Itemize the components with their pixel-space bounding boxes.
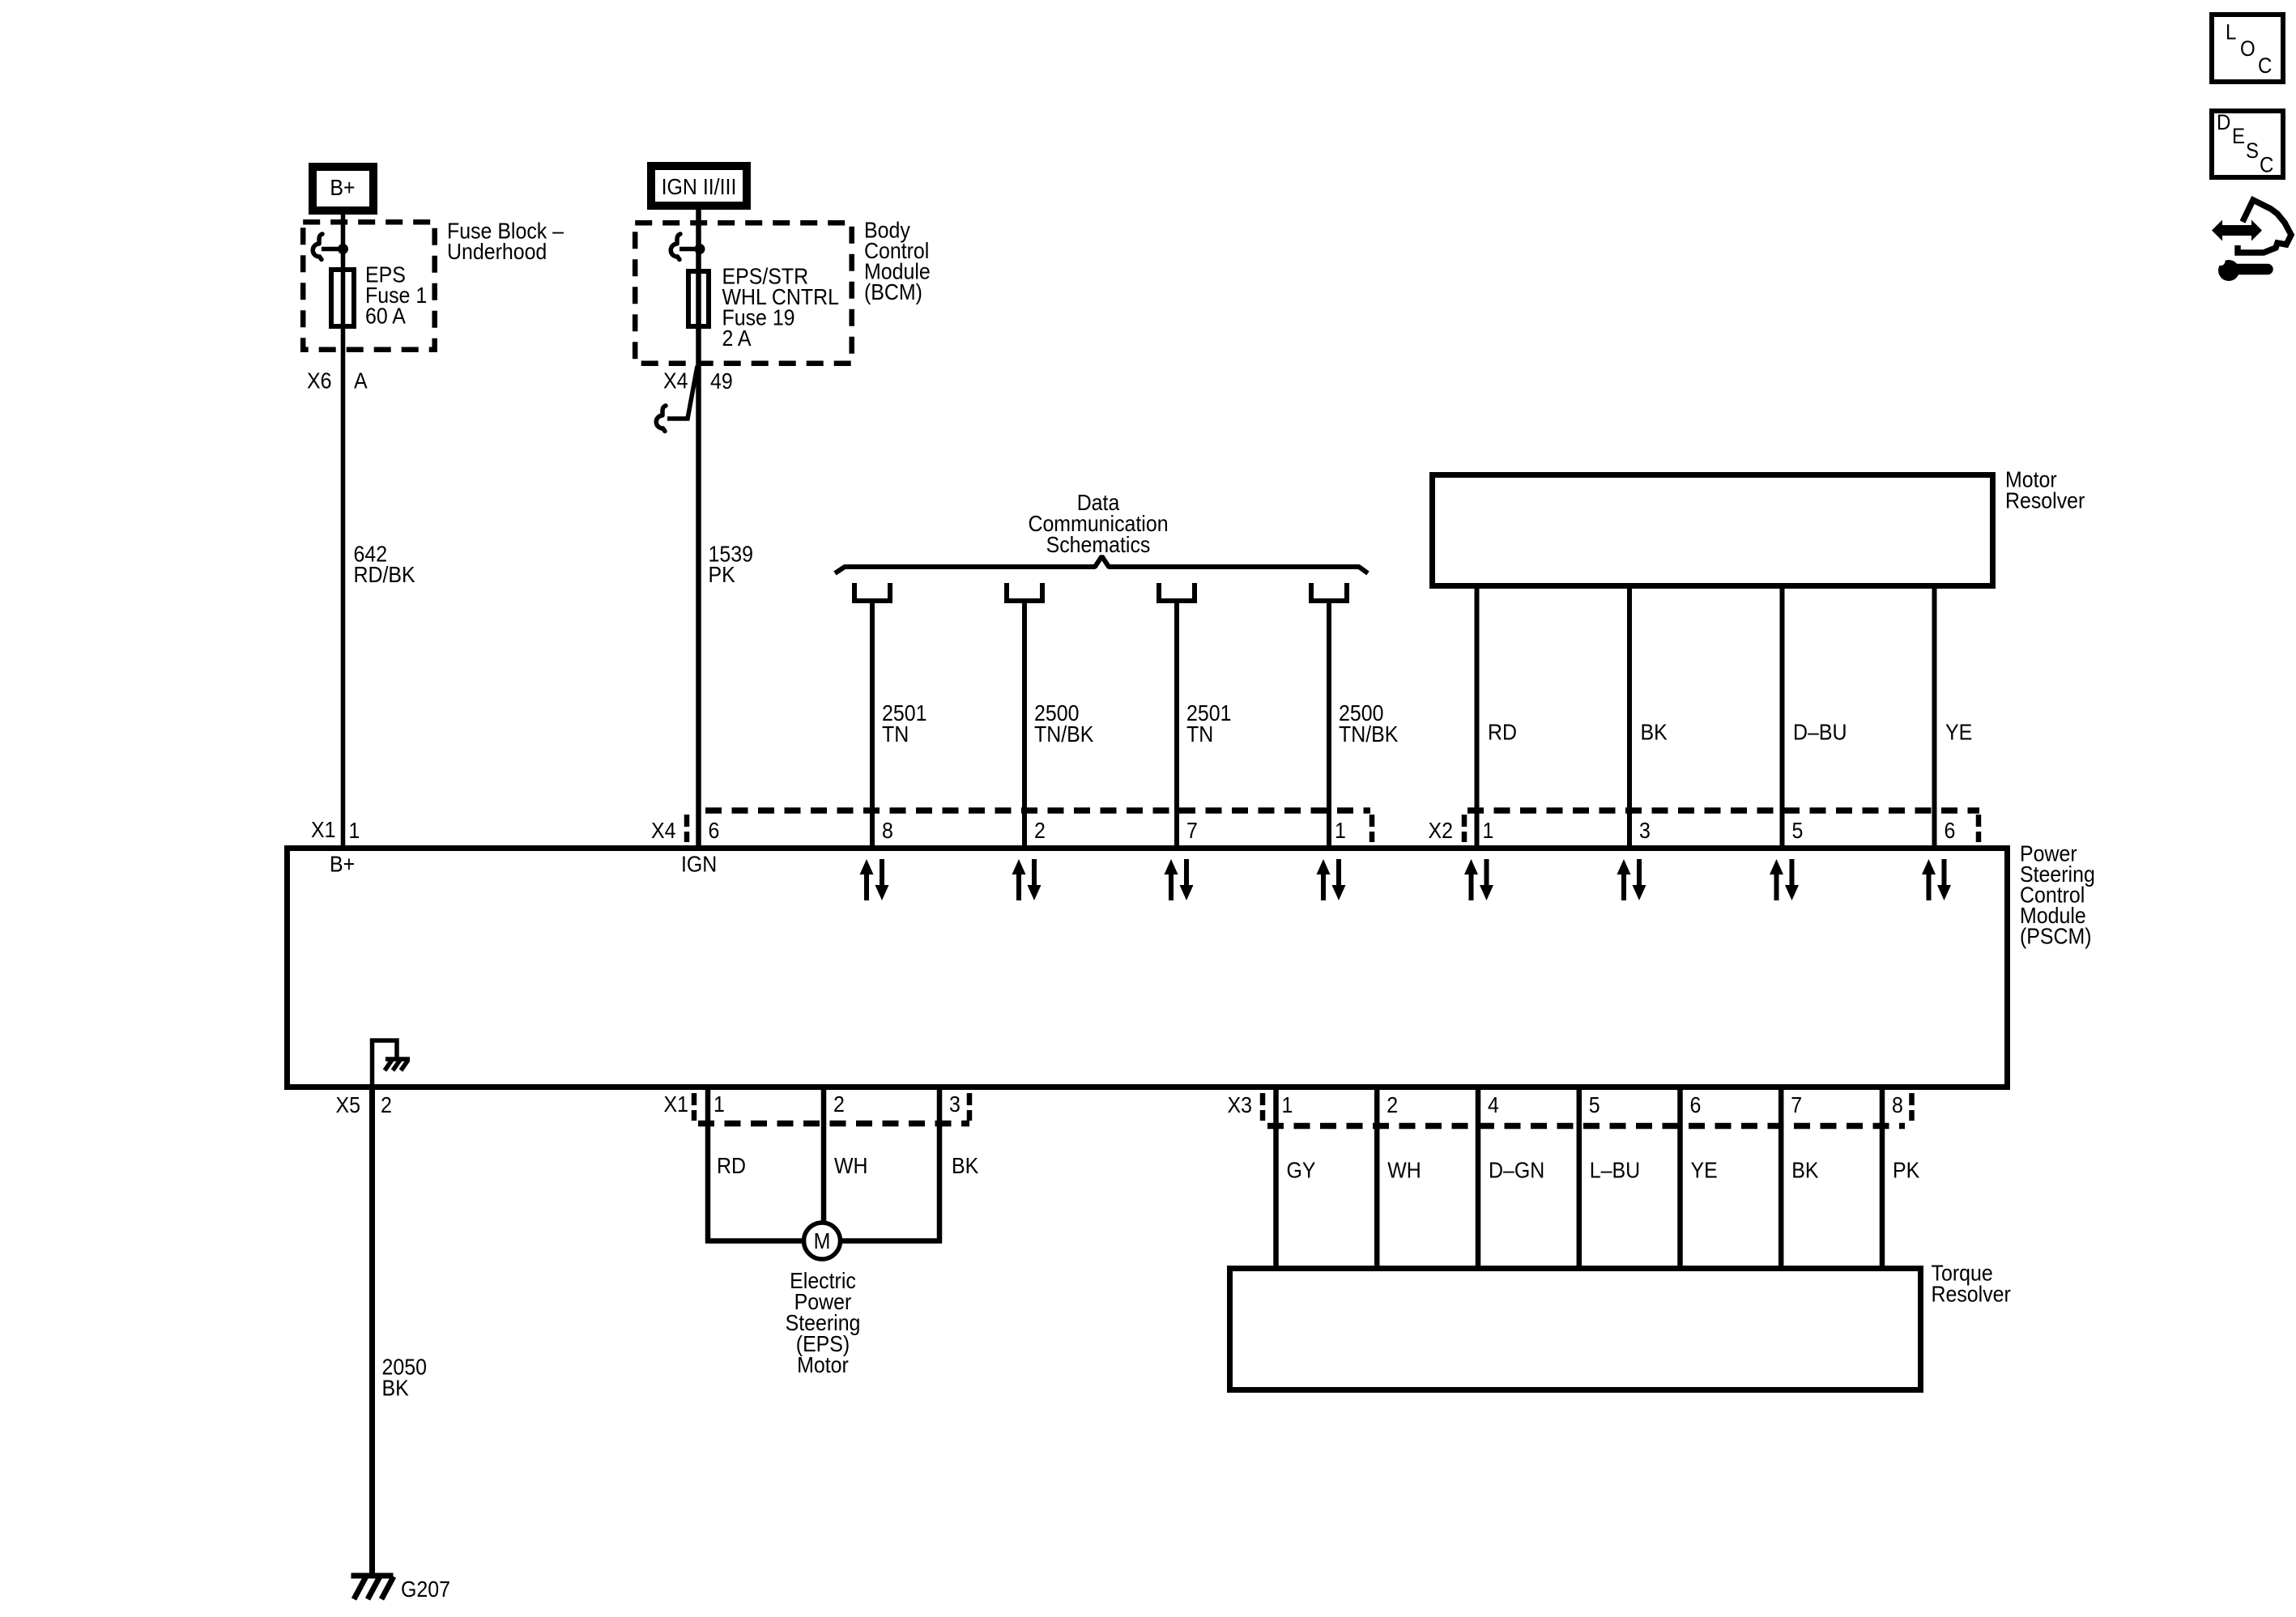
svg-text:M: M — [814, 1228, 831, 1254]
svg-text:60 A: 60 A — [365, 303, 406, 329]
X2 bracket left dashes — [1462, 815, 1467, 827]
svg-text:6: 6 — [1945, 818, 1956, 844]
svg-text:1: 1 — [714, 1091, 725, 1117]
svg-text:2 A: 2 A — [722, 326, 752, 351]
X1 bracket left dashes — [692, 1093, 697, 1105]
svg-text:A: A — [354, 368, 368, 394]
svg-text:(PSCM): (PSCM) — [2020, 923, 2092, 949]
svg-text:TN: TN — [882, 721, 909, 747]
svg-text:X2: X2 — [1429, 818, 1453, 844]
wire torque resolver WH — [1374, 1087, 1380, 1268]
svg-text:D–BU: D–BU — [1793, 719, 1847, 745]
wire serial data 2501 TN (pin 7) — [1174, 603, 1179, 848]
svg-text:BK: BK — [382, 1375, 410, 1401]
wire torque resolver PK — [1880, 1087, 1885, 1268]
X2 bracket right dashes — [1976, 815, 1982, 827]
svg-text:2: 2 — [381, 1092, 392, 1118]
wire 1539 PK from BCM IGN feed to PSCM X4-6 — [696, 206, 701, 848]
data link drop symbol 3 — [1159, 583, 1195, 601]
wire torque resolver YE — [1677, 1087, 1683, 1268]
svg-text:8: 8 — [1892, 1092, 1903, 1118]
svg-text:4: 4 — [1488, 1092, 1499, 1118]
svg-text:WH: WH — [834, 1153, 868, 1179]
clip terminal at B+ fuse input — [319, 234, 322, 243]
wire serial data 2500 TN/BK (pin 2) — [1022, 603, 1027, 848]
svg-text:L: L — [2226, 20, 2236, 45]
svg-text:C: C — [2260, 153, 2273, 177]
service icon double arrow — [2212, 220, 2262, 241]
wire torque resolver D–GN — [1476, 1087, 1481, 1268]
svg-text:3: 3 — [949, 1091, 961, 1117]
svg-text:1: 1 — [1483, 818, 1494, 844]
svg-text:S: S — [2246, 139, 2259, 164]
X4 bracket right dashes — [1370, 815, 1375, 827]
svg-text:RD: RD — [717, 1153, 746, 1179]
svg-text:Underhood: Underhood — [447, 239, 547, 265]
X1 bracket right dashes — [967, 1093, 973, 1105]
svg-text:B+: B+ — [330, 851, 355, 877]
bidirectional data arrows at x=1265 — [1012, 859, 1026, 900]
connector X3 dashed bracket at PSCM bottom — [1267, 1123, 1905, 1130]
internal ground link inside PSCM — [373, 1040, 398, 1086]
wire motor resolver YE (X2 pin) — [1932, 585, 1937, 848]
LOC reference box — [2212, 15, 2283, 82]
X4 bracket left dashes — [684, 815, 690, 827]
fuse F1 EPS 60A element — [331, 270, 354, 326]
motor resolver box — [1433, 475, 1993, 586]
svg-text:B+: B+ — [330, 175, 355, 201]
wire motor resolver RD (X2 pin) — [1475, 585, 1480, 848]
svg-text:BK: BK — [952, 1153, 979, 1179]
svg-text:BK: BK — [1641, 719, 1668, 745]
svg-text:TN: TN — [1186, 721, 1213, 747]
fuse F19 EPS/STR WHL CNTRL 2A element — [688, 271, 709, 326]
svg-text:2: 2 — [833, 1091, 845, 1117]
svg-text:C: C — [2258, 54, 2272, 79]
svg-text:X1: X1 — [664, 1091, 688, 1117]
connector X2 dashed bracket at PSCM — [1467, 807, 1979, 814]
bidirectional data arrows at x=1077 — [860, 859, 874, 900]
EPS motor M1 circle — [804, 1223, 841, 1259]
svg-text:D: D — [2217, 111, 2230, 135]
power steering control module PSCM box — [288, 849, 2008, 1087]
svg-text:Schematics: Schematics — [1046, 532, 1151, 558]
wire EPS motor WH — [821, 1087, 827, 1224]
connector X4 dashed bracket at PSCM — [705, 807, 1370, 814]
svg-text:(BCM): (BCM) — [864, 279, 922, 305]
wire serial data 2501 TN (pin 8) — [870, 603, 875, 848]
svg-text:RD/BK: RD/BK — [354, 562, 415, 588]
bidirectional data arrows at x=1641 — [1317, 859, 1331, 900]
svg-text:5: 5 — [1589, 1092, 1600, 1118]
wire to motor right — [840, 1238, 942, 1244]
svg-text:X4: X4 — [663, 368, 688, 394]
svg-text:X6: X6 — [307, 368, 331, 394]
wire to motor left — [705, 1238, 804, 1244]
svg-text:49: 49 — [710, 368, 733, 394]
data link drop symbol 2 — [1007, 583, 1042, 601]
svg-text:X4: X4 — [651, 818, 675, 844]
wire motor resolver BK (X2 pin) — [1627, 585, 1632, 848]
power feed B+ box — [313, 167, 373, 211]
svg-text:D–GN: D–GN — [1489, 1157, 1544, 1183]
svg-text:X5: X5 — [336, 1092, 360, 1118]
svg-text:G207: G207 — [401, 1577, 450, 1602]
connector X1 dashed bracket at PSCM bottom — [698, 1121, 969, 1127]
svg-text:7: 7 — [1186, 818, 1198, 844]
X3 bracket right dashes — [1909, 1093, 1915, 1105]
X3 bracket left dashes — [1260, 1093, 1266, 1105]
svg-text:BK: BK — [1791, 1157, 1819, 1183]
svg-text:YE: YE — [1945, 719, 1972, 745]
ground G207 chassis symbol — [351, 1573, 394, 1579]
wire serial data 2500 TN/BK (pin 1) — [1327, 603, 1331, 848]
torque resolver box — [1230, 1269, 1921, 1390]
wire 2050 BK ground wire — [369, 1087, 375, 1576]
connector lead X4-49 diagonal — [667, 366, 697, 419]
wire 642 RD/BK from B+ feed to PSCM X1-1 — [341, 211, 346, 848]
svg-text:8: 8 — [882, 818, 893, 844]
svg-text:Resolver: Resolver — [1932, 1281, 2011, 1307]
svg-text:YE: YE — [1691, 1157, 1718, 1183]
data link drop symbol 1 — [854, 583, 890, 601]
svg-text:6: 6 — [709, 818, 720, 844]
svg-text:1: 1 — [1335, 818, 1346, 844]
bidirectional signal arrows at x=2200.5 — [1770, 859, 1783, 900]
svg-text:TN/BK: TN/BK — [1034, 721, 1094, 747]
junction dot on IGN wire — [695, 244, 705, 254]
wire torque resolver BK — [1778, 1087, 1784, 1268]
svg-text:O: O — [2240, 37, 2256, 62]
power feed IGN II/III box — [651, 166, 747, 206]
brace over data links — [835, 556, 1368, 573]
wire EPS motor BK — [937, 1087, 943, 1243]
wire torque resolver GY — [1273, 1087, 1279, 1268]
svg-text:1: 1 — [349, 818, 360, 844]
service icon wrench — [2218, 260, 2239, 281]
svg-text:6: 6 — [1690, 1092, 1702, 1118]
svg-text:RD: RD — [1488, 719, 1517, 745]
svg-text:2: 2 — [1034, 818, 1046, 844]
data link drop symbol 4 — [1311, 583, 1347, 601]
svg-text:TN/BK: TN/BK — [1339, 721, 1399, 747]
wire motor resolver D–BU (X2 pin) — [1780, 585, 1785, 848]
svg-text:PK: PK — [1893, 1157, 1920, 1183]
service icon panel outline — [2238, 200, 2291, 253]
svg-text:WH: WH — [1387, 1157, 1421, 1183]
wire torque resolver L–BU — [1577, 1087, 1582, 1268]
bidirectional signal arrows at x=1823.5 — [1464, 859, 1478, 900]
svg-text:Motor: Motor — [797, 1352, 849, 1378]
bidirectional signal arrows at x=2388.5 — [1922, 859, 1936, 900]
svg-text:E: E — [2232, 125, 2245, 149]
bidirectional signal arrows at x=2012 — [1617, 859, 1631, 900]
bidirectional data arrows at x=1453 — [1165, 859, 1178, 900]
svg-text:5: 5 — [1792, 818, 1804, 844]
body control module dashed box — [635, 223, 851, 364]
clip terminal at X4-49 — [662, 406, 666, 415]
svg-text:2: 2 — [1387, 1092, 1398, 1118]
svg-text:7: 7 — [1791, 1092, 1802, 1118]
svg-text:Resolver: Resolver — [2005, 487, 2085, 513]
wire EPS motor RD — [705, 1087, 711, 1243]
fuse block underhood dashed box — [303, 222, 435, 350]
svg-text:X3: X3 — [1228, 1092, 1252, 1118]
svg-text:PK: PK — [709, 562, 736, 588]
svg-text:X1: X1 — [311, 817, 335, 843]
chassis ground symbol inside PSCM — [386, 1057, 410, 1062]
DESC reference box — [2212, 111, 2283, 177]
clip terminal at BCM fuse input — [677, 234, 680, 243]
svg-text:1: 1 — [1282, 1092, 1293, 1118]
svg-text:IGN II/III: IGN II/III — [662, 174, 737, 200]
svg-text:3: 3 — [1639, 818, 1651, 844]
junction dot on B+ wire — [338, 244, 348, 254]
svg-text:IGN: IGN — [681, 851, 717, 877]
svg-text:GY: GY — [1287, 1157, 1316, 1183]
svg-text:L–BU: L–BU — [1590, 1157, 1640, 1183]
